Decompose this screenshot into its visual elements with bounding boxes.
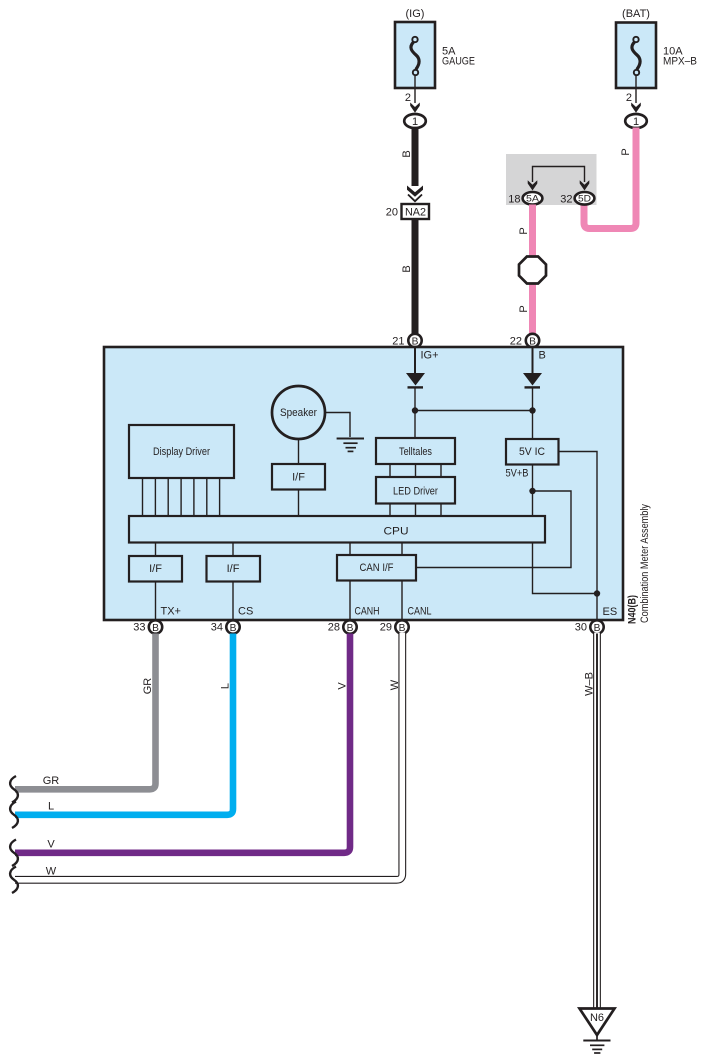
svg-text:28: 28 [328, 622, 340, 634]
svg-text:GR: GR [142, 678, 154, 695]
svg-text:B: B [399, 623, 406, 634]
combination meter assembly box N40(B) [104, 347, 623, 620]
svg-text:(IG): (IG) [406, 8, 425, 20]
svg-text:I/F: I/F [292, 472, 305, 484]
svg-text:P: P [518, 305, 530, 312]
wire label P (lower) [518, 305, 530, 312]
wire I/F to pin 33 [155, 582, 157, 621]
svg-text:B: B [401, 150, 413, 157]
meter designator N40(B) vertical [627, 595, 639, 624]
diode D1 (IG+) [406, 373, 425, 386]
wire label W-B vertical [584, 672, 596, 696]
junction dot ES [594, 590, 600, 596]
svg-text:5V IC: 5V IC [519, 446, 545, 458]
continuation brace V [10, 840, 18, 867]
LED driver box [376, 477, 455, 504]
pin 33 connector B [149, 620, 162, 633]
svg-text:L: L [220, 683, 232, 689]
pin 34 connector B [226, 620, 239, 633]
wire label L vertical [220, 683, 232, 689]
svg-text:V: V [337, 682, 349, 690]
CPU box [129, 516, 545, 543]
junction dot 5V+B [529, 488, 535, 494]
junction dot B rail [529, 407, 535, 413]
wire pin21 to diode [414, 347, 416, 374]
svg-text:N40(B): N40(B) [627, 595, 639, 624]
speaker circle [272, 386, 325, 439]
wire V violet (CANH) [15, 634, 350, 853]
fuse IG box [395, 22, 435, 88]
junction chevron arrow above NA2 [407, 186, 423, 197]
wire P pink (BAT oval down, left, up to 5D) [584, 128, 636, 229]
continuation brace GR [10, 776, 18, 803]
svg-text:B: B [539, 350, 546, 362]
wire CAN I/F to pin 28 [349, 581, 351, 621]
wire speaker to ground [326, 413, 351, 438]
connector oval 5D [575, 192, 595, 205]
svg-text:W: W [46, 866, 57, 878]
wires display driver to CPU (7) [143, 478, 220, 516]
svg-text:W–B: W–B [584, 672, 596, 696]
svg-text:34: 34 [211, 622, 223, 634]
wire CPU to ES rail [533, 543, 598, 594]
wire B black (IG to NA2) [412, 128, 419, 187]
wire P pink (5A to pin 22) [529, 205, 536, 335]
svg-text:V: V [47, 839, 55, 851]
continuation brace W [10, 867, 18, 894]
CAN I/F box [337, 555, 416, 581]
svg-text:CAN I/F: CAN I/F [360, 562, 394, 574]
svg-text:B: B [401, 265, 413, 272]
ground leg N6 [596, 1035, 598, 1040]
svg-text:Display Driver: Display Driver [153, 446, 210, 458]
wire GR gray (TX+) [15, 634, 156, 790]
wire 5V IC to CPU [532, 465, 534, 517]
svg-text:GAUGE: GAUGE [442, 56, 475, 68]
svg-text:LED Driver: LED Driver [393, 486, 438, 498]
junction gray box [506, 154, 597, 205]
svg-text:30: 30 [575, 622, 587, 634]
svg-text:B: B [347, 623, 354, 634]
svg-text:5V+B: 5V+B [506, 468, 529, 480]
wire diode D2 to 5V IC [532, 387, 534, 439]
svg-text:N6: N6 [590, 1012, 604, 1024]
telltales box [376, 438, 455, 464]
svg-text:B: B [152, 623, 159, 634]
svg-text:CANL: CANL [408, 606, 432, 618]
ground bars N6 [583, 1041, 610, 1054]
wire label P (BAT) [620, 148, 632, 155]
pin 29 connector B [395, 620, 408, 633]
svg-text:P: P [518, 227, 530, 234]
svg-text:2: 2 [626, 92, 632, 104]
svg-text:CANH: CANH [355, 606, 380, 618]
svg-text:P: P [620, 148, 632, 155]
wire label V vertical [337, 682, 349, 690]
svg-text:GR: GR [43, 775, 60, 787]
wire speaker to I/F [298, 439, 300, 464]
wires LED driver to CPU (3) [390, 504, 441, 517]
meter name vertical [639, 504, 651, 623]
ground triangle N6 [580, 1009, 615, 1036]
connector arrow 5A [528, 180, 538, 190]
svg-text:NA2: NA2 [405, 207, 426, 219]
pin 30 connector B [590, 620, 603, 633]
wire CAN I/F to pin 29 [401, 581, 403, 621]
svg-text:B: B [412, 336, 419, 347]
svg-text:L: L [48, 801, 54, 813]
wire CPU to I/F TX+ [155, 543, 157, 557]
pin 21 connector B [408, 334, 421, 347]
wire label W vertical [389, 679, 401, 690]
svg-text:Telltales: Telltales [399, 446, 432, 458]
connector arrow (BAT) [631, 103, 641, 113]
wire I/F to CPU [298, 490, 300, 517]
wire 5V IC to ES rail [559, 452, 598, 621]
svg-text:CS: CS [238, 606, 253, 618]
svg-text:IG+: IG+ [421, 350, 439, 362]
wire W white (CANL) [15, 634, 402, 880]
svg-text:TX+: TX+ [161, 606, 181, 618]
wire label B [401, 150, 413, 157]
wire fuse IG pin 2 [414, 76, 416, 103]
I/F box (TX+) [129, 556, 182, 582]
wire CPU to CAN I/F (CANL) [401, 543, 403, 556]
connector oval 1 (IG) [404, 114, 426, 128]
fuse IG symbol [411, 37, 419, 75]
svg-text:5D: 5D [578, 194, 591, 205]
junction dot IG+ rail [412, 407, 418, 413]
svg-text:I/F: I/F [227, 563, 240, 575]
svg-text:Speaker: Speaker [280, 407, 317, 419]
noise filter octagon [519, 257, 546, 284]
5V IC box [506, 439, 559, 465]
diode D2 (B) [523, 373, 542, 386]
wire CPU to I/F CS [232, 543, 234, 557]
fuse BAT symbol [632, 37, 640, 75]
wire L blue (CS) [15, 634, 233, 815]
svg-text:W: W [389, 679, 401, 690]
svg-text:20: 20 [386, 207, 398, 219]
I/F box (CS) [207, 556, 261, 582]
svg-text:33: 33 [133, 622, 145, 634]
connector arrow 5D [580, 180, 590, 190]
wire fuse BAT pin 2 [635, 76, 637, 103]
connector NA2 box [402, 204, 430, 219]
wire diode D1 to Telltales [414, 387, 416, 438]
svg-text:32: 32 [560, 193, 572, 205]
wire link IG+ to B rail [415, 410, 533, 412]
pin 22 connector B [526, 334, 539, 347]
svg-text:18: 18 [508, 193, 520, 205]
connector arrow (IG) [410, 103, 420, 113]
svg-text:B: B [230, 623, 237, 634]
wires telltales to LED driver (3) [390, 464, 441, 477]
wire label P (upper) [518, 227, 530, 234]
svg-text:2: 2 [405, 92, 411, 104]
connector oval 5A [523, 192, 543, 205]
wire 5V+B to CAN I/F [417, 491, 572, 568]
wire I/F to pin 34 [232, 582, 234, 621]
svg-text:MPX–B: MPX–B [663, 56, 697, 68]
svg-text:ES: ES [603, 606, 618, 618]
continuation brace L [10, 802, 18, 829]
svg-text:I/F: I/F [149, 563, 162, 575]
pin 28 connector B [343, 620, 356, 633]
I/F box (speaker) [272, 464, 325, 490]
wire W-B white-black (ES to ground) [593, 634, 601, 1009]
svg-text:1: 1 [633, 116, 639, 128]
wire label GR vertical [142, 678, 154, 695]
svg-text:B: B [529, 336, 536, 347]
bridge wire inside gray box [533, 167, 585, 183]
svg-text:CPU: CPU [384, 526, 409, 538]
wire pin22 to diode [532, 347, 534, 374]
svg-text:B: B [594, 623, 601, 634]
ground (speaker) [337, 439, 364, 452]
svg-text:29: 29 [380, 622, 392, 634]
wire label B [401, 265, 413, 272]
svg-text:(BAT): (BAT) [622, 8, 650, 20]
wire CPU to CAN I/F (CANH) [349, 543, 351, 556]
connector oval 1 (BAT) [625, 114, 647, 128]
svg-text:5A: 5A [526, 194, 540, 205]
display driver box [129, 425, 234, 478]
svg-text:Combination Meter Assembly: Combination Meter Assembly [639, 504, 651, 623]
svg-text:1: 1 [412, 116, 418, 128]
wire B black (NA2 to pin 21) [412, 219, 419, 335]
fuse BAT box [616, 23, 656, 89]
